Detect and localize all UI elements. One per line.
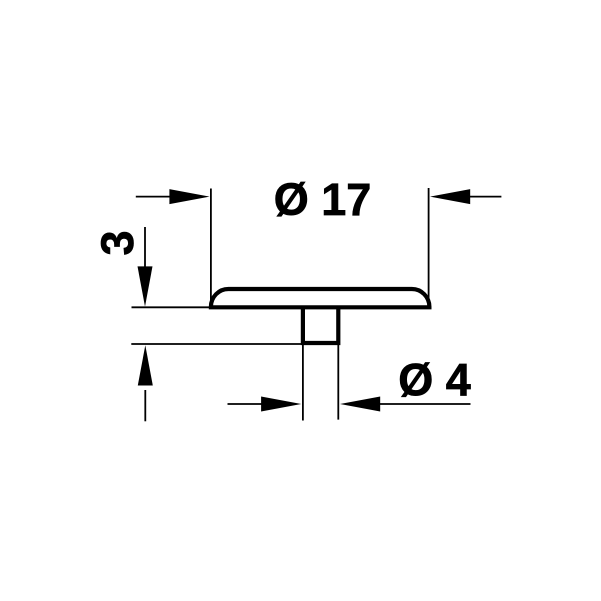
dimension line Ø17 right with arrow (460, 196, 501, 198)
dimension arrow 3 upper (pointing down) (144, 227, 146, 275)
extension line upper (3 dim, at cap bottom) (132, 306, 214, 308)
dimension line Ø17 left with arrow (136, 196, 180, 198)
svg-text:Ø 17: Ø 17 (274, 174, 372, 225)
dimension arrow 3 lower (pointing up) (144, 390, 146, 421)
svg-text:3: 3 (92, 230, 143, 255)
extension line lower (3 dim, at stem bottom) (131, 343, 338, 345)
extension line left (Ø17) (210, 189, 212, 307)
dimension line Ø4 right with arrow (372, 403, 471, 405)
dimension line Ø4 left with arrow (228, 403, 271, 405)
stem outline (Ø4 profile) (303, 307, 338, 343)
extension line right (Ø17) (428, 188, 430, 306)
cap head outline (Ø17 profile) (211, 289, 430, 307)
extension line stem right (Ø4) (337, 343, 339, 420)
extension line stem left (Ø4) (302, 343, 304, 421)
svg-text:Ø 4: Ø 4 (398, 355, 471, 406)
